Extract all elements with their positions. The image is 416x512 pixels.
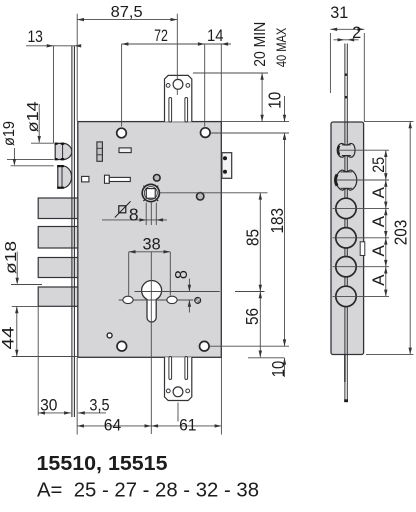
svg-text:38: 38 xyxy=(143,235,161,253)
dimension 8 offset xyxy=(171,270,191,312)
svg-text:30: 30 xyxy=(40,397,57,415)
dimension 31 xyxy=(330,4,364,122)
faceplate lower dark segment xyxy=(344,355,346,383)
square 8 dimension line xyxy=(102,219,167,221)
cylinder screw hole right xyxy=(167,296,177,303)
extension line top holes xyxy=(211,132,289,134)
bottom tab center line xyxy=(177,403,179,422)
faceplate back line xyxy=(73,46,75,418)
bottom tab big hole xyxy=(173,387,183,397)
handle follower U1 xyxy=(142,184,159,201)
tab slot right xyxy=(185,98,188,123)
side tick lines xyxy=(338,149,390,151)
extension line body top right xyxy=(221,121,289,123)
dimension 3,5 xyxy=(78,397,110,415)
svg-text:183: 183 xyxy=(267,208,287,234)
fixing hole top-right xyxy=(201,128,211,138)
svg-text:8: 8 xyxy=(171,270,191,279)
svg-text:8: 8 xyxy=(129,204,139,224)
dimension 14 xyxy=(207,27,228,121)
svg-text:A= 25 - 27 - 28 - 32 - 38: A= 25 - 27 - 28 - 32 - 38 xyxy=(37,479,259,502)
svg-text:56: 56 xyxy=(242,308,262,325)
extension line body bottom right xyxy=(248,357,284,359)
deadbolt 4 xyxy=(38,287,78,306)
tab big hole xyxy=(173,79,183,89)
deadbolt 1 xyxy=(38,198,78,219)
cylinder screw holes line xyxy=(119,299,194,301)
svg-text:A: A xyxy=(369,274,388,286)
svg-text:72: 72 xyxy=(154,27,168,45)
tab small hole right xyxy=(186,84,190,88)
svg-text:13: 13 xyxy=(27,28,43,46)
fixing hole top-left xyxy=(117,128,127,138)
tab small hole left xyxy=(166,84,170,88)
svg-text:44: 44 xyxy=(0,327,17,350)
fixing hole bottom-left xyxy=(117,341,127,351)
body interior: spring stack xyxy=(97,142,103,161)
svg-text:31: 31 xyxy=(330,4,348,22)
faceplate bottom cap xyxy=(344,399,348,402)
side circle c2 (latch o19 cross-section) xyxy=(336,170,357,190)
svg-text:ø14: ø14 xyxy=(25,101,42,132)
svg-text:10: 10 xyxy=(268,361,288,378)
bottom tab small hole left xyxy=(166,389,170,393)
tab slot left xyxy=(169,98,172,123)
dimension 10 top xyxy=(265,92,287,140)
dimension 10 bottom xyxy=(268,358,288,377)
lock body xyxy=(78,122,222,358)
top mounting tab xyxy=(165,14,192,122)
svg-text:A: A xyxy=(369,215,388,227)
dimension 30 xyxy=(38,306,71,415)
side circle c4 xyxy=(336,228,356,248)
faceplate front line xyxy=(71,46,73,418)
latch bolt 2 (o19) xyxy=(57,165,71,189)
dimension 183 xyxy=(267,133,287,346)
body interior: small plate xyxy=(119,148,131,153)
dimension 2 xyxy=(334,24,362,42)
fixing hole bottom-right xyxy=(200,341,210,351)
side faceplate line right xyxy=(346,44,348,403)
svg-text:ø19: ø19 xyxy=(1,121,18,146)
rivet right xyxy=(197,193,204,200)
svg-text:85: 85 xyxy=(243,229,263,246)
tab center line xyxy=(176,14,178,95)
svg-text:87,5: 87,5 xyxy=(111,4,143,21)
side circle c1 (latch o14 cross-section) xyxy=(338,143,355,157)
square symbol label xyxy=(119,206,126,213)
callout o19 xyxy=(1,121,54,166)
spindle axis extension line xyxy=(160,192,268,194)
faceplate tick marks xyxy=(345,74,347,76)
dimension 72 xyxy=(122,27,231,127)
body interior: left pin xyxy=(82,176,89,182)
side circle c5 xyxy=(336,257,356,277)
callout o18 xyxy=(3,241,42,285)
dimension 85 xyxy=(235,193,265,292)
svg-text:61: 61 xyxy=(179,416,196,434)
extension line bottom holes xyxy=(210,345,289,347)
dimension 64 xyxy=(77,358,221,435)
svg-text:20 MIN: 20 MIN xyxy=(252,22,269,67)
dimension 44 xyxy=(0,306,78,356)
svg-text:203: 203 xyxy=(391,220,411,246)
euro cylinder profile xyxy=(142,281,162,322)
latch tip extension line xyxy=(53,46,55,144)
svg-text:A: A xyxy=(369,186,388,198)
bottom tab slot left xyxy=(169,357,172,380)
dimension 56 xyxy=(242,292,262,358)
dimension 61 xyxy=(151,416,221,434)
svg-text:ø18: ø18 xyxy=(3,241,20,274)
rivet above follower xyxy=(154,175,161,182)
body interior: slider bar xyxy=(105,175,110,183)
dimension 203 xyxy=(364,121,414,354)
latch bolt 1 (o14) xyxy=(55,143,72,161)
deadbolt 3 xyxy=(38,258,78,278)
dimension 20 MIN / 40 MAX xyxy=(193,22,289,122)
cylinder screw hole left xyxy=(123,296,133,303)
svg-text:15510, 15515: 15510, 15515 xyxy=(37,452,168,475)
dimension 38 xyxy=(129,235,171,295)
side circle c6 xyxy=(336,286,356,306)
svg-text:A: A xyxy=(369,244,388,256)
svg-text:40 MAX: 40 MAX xyxy=(274,28,289,68)
side notch xyxy=(360,242,365,256)
side bar body xyxy=(331,122,364,355)
bottom mounting tab xyxy=(165,357,192,422)
svg-text:2: 2 xyxy=(352,24,361,42)
bottom tab small hole right xyxy=(186,389,190,393)
cylinder vertical center line xyxy=(150,252,152,434)
svg-text:3,5: 3,5 xyxy=(89,397,109,415)
svg-text:14: 14 xyxy=(207,27,224,45)
side faceplate line left xyxy=(344,44,346,403)
side dimension chain 25/A/A/A/A xyxy=(369,150,388,296)
svg-text:64: 64 xyxy=(104,416,121,434)
small pin bottom left xyxy=(107,333,112,338)
bottom tab slot right xyxy=(185,357,188,380)
dimension 87,5 xyxy=(77,4,177,121)
svg-text:25: 25 xyxy=(369,157,388,173)
callout o14 xyxy=(25,101,54,143)
hatched pin xyxy=(195,297,201,303)
square 8 extension lines xyxy=(145,203,147,226)
dimension 13 xyxy=(26,28,81,48)
side circle c3 xyxy=(336,198,356,218)
cylinder horizontal axis line xyxy=(135,291,220,293)
side latch keeper widget xyxy=(222,153,232,179)
svg-text:10: 10 xyxy=(265,92,285,109)
deadbolt 2 xyxy=(38,227,78,249)
